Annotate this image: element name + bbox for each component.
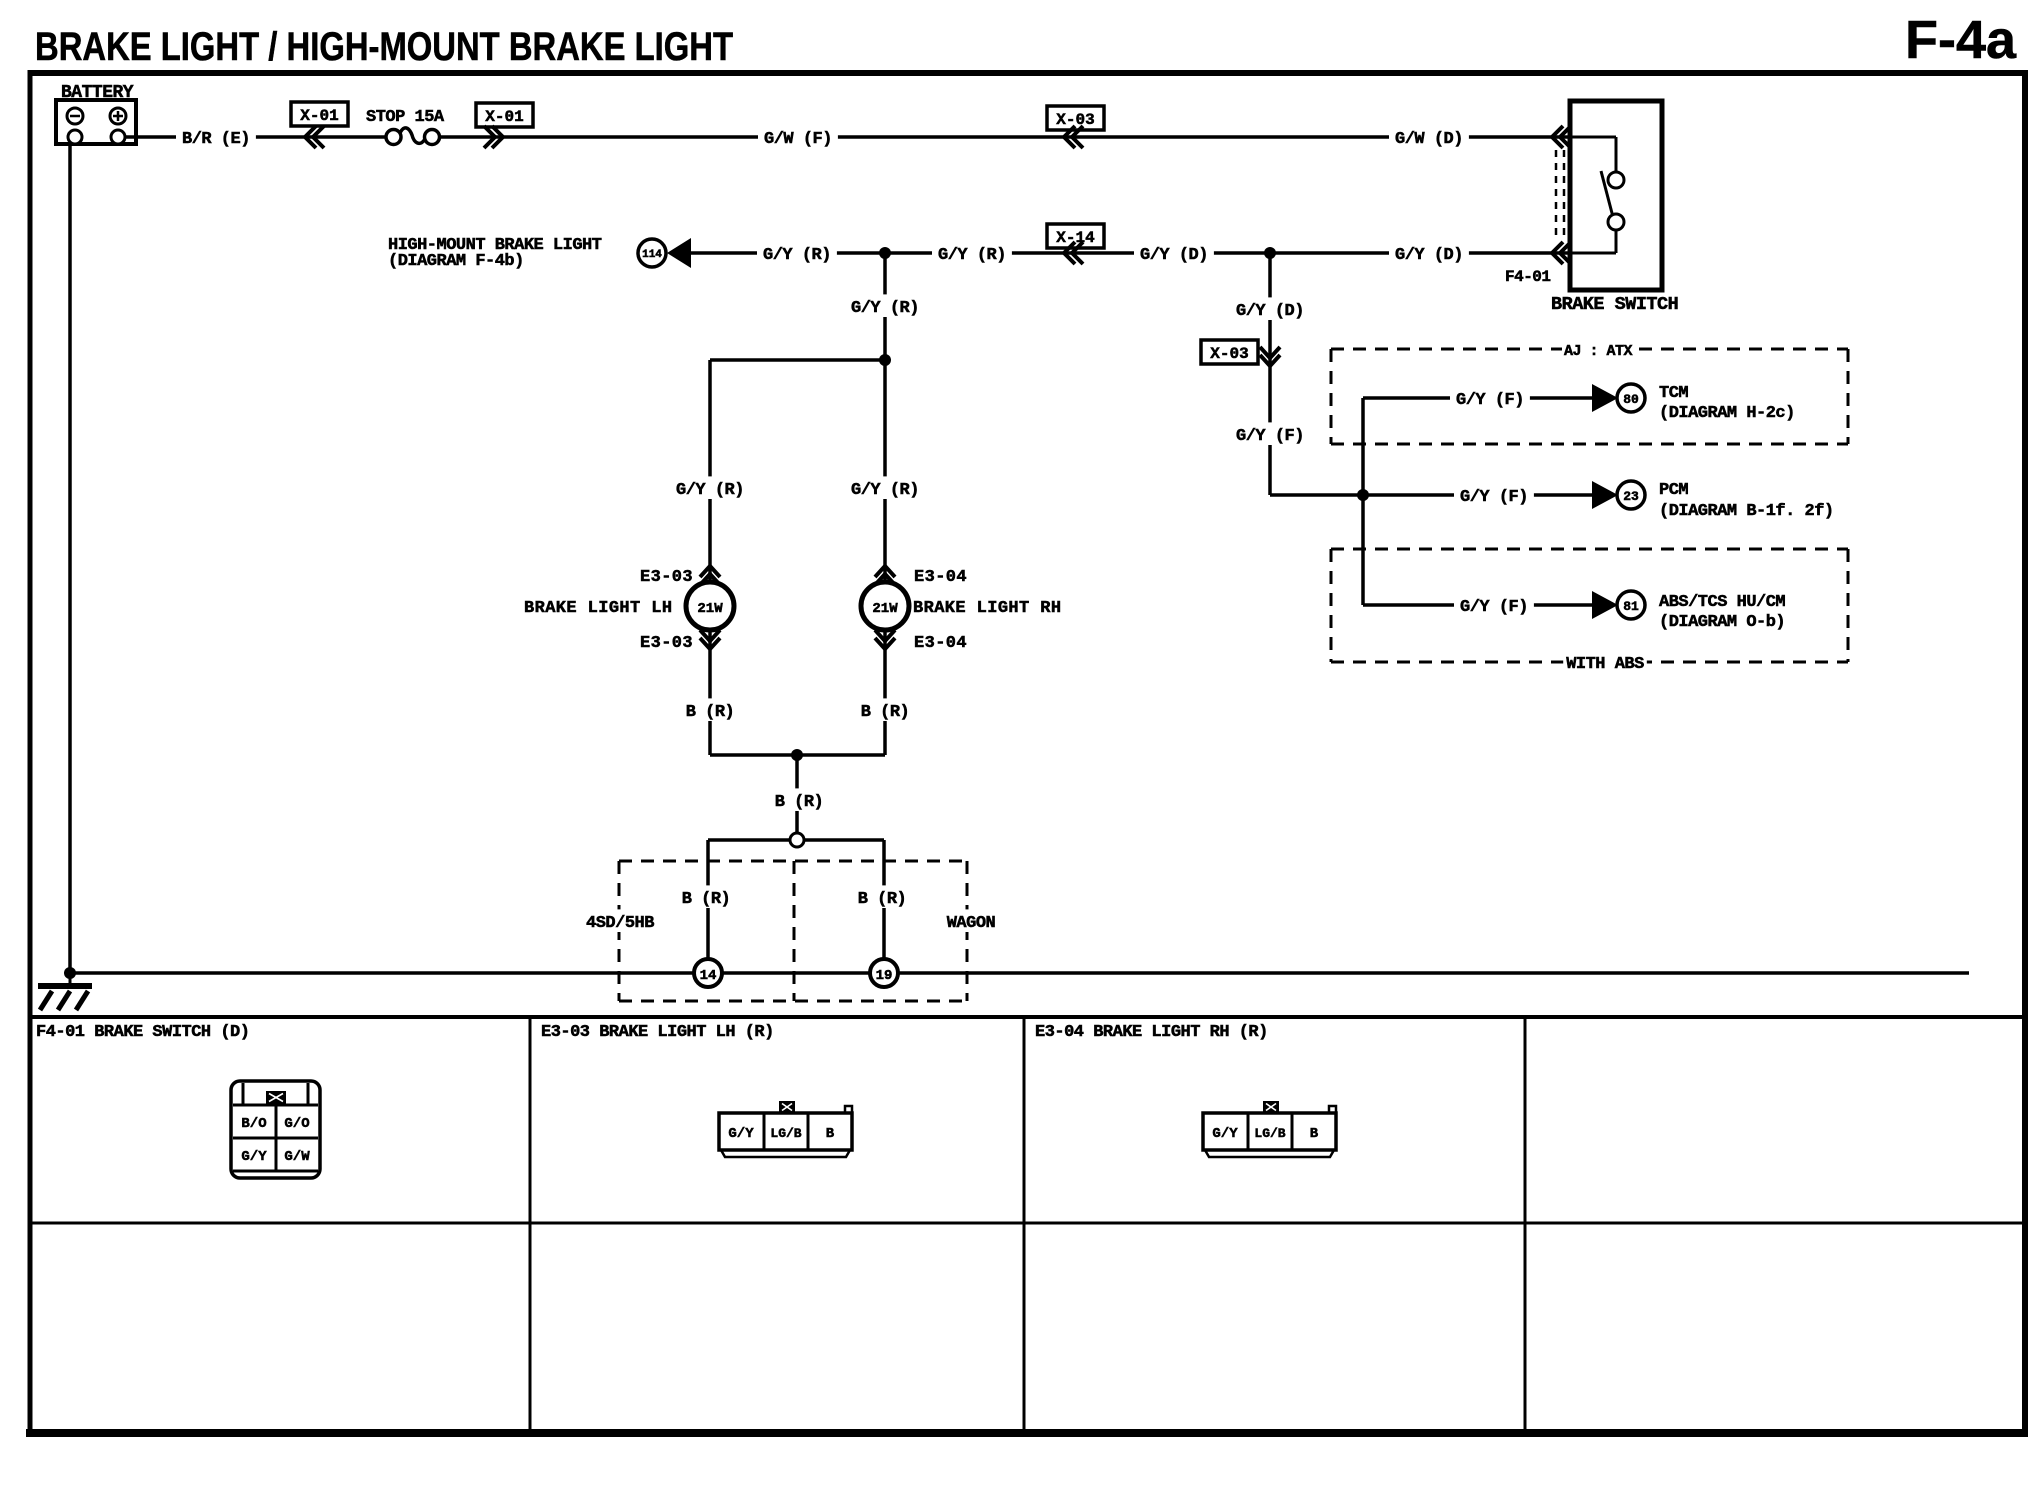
- svg-text:WAGON: WAGON: [947, 914, 996, 933]
- svg-text:G/O: G/O: [284, 1116, 309, 1132]
- svg-text:G/Y (F): G/Y (F): [1236, 427, 1304, 446]
- svg-text:E3-03 BRAKE LIGHT LH (R): E3-03 BRAKE LIGHT LH (R): [541, 1023, 774, 1042]
- svg-text:ABS/TCS HU/CM: ABS/TCS HU/CM: [1659, 593, 1785, 612]
- svg-text:14: 14: [700, 968, 717, 984]
- svg-text:STOP 15A: STOP 15A: [366, 108, 445, 127]
- svg-text:PCM: PCM: [1659, 481, 1688, 500]
- svg-text:(DIAGRAM F-4b): (DIAGRAM F-4b): [388, 252, 524, 271]
- svg-text:B (R): B (R): [858, 890, 907, 909]
- svg-text:E3-03: E3-03: [640, 634, 693, 653]
- svg-text:LG/B: LG/B: [770, 1126, 801, 1141]
- svg-text:X-01: X-01: [485, 108, 523, 126]
- svg-text:G/Y (R): G/Y (R): [851, 299, 919, 318]
- svg-text:B (R): B (R): [861, 703, 910, 722]
- svg-text:19: 19: [876, 968, 893, 984]
- svg-text:BRAKE LIGHT / HIGH-MOUNT BRAKE: BRAKE LIGHT / HIGH-MOUNT BRAKE LIGHT: [35, 25, 733, 69]
- svg-text:F4-01: F4-01: [1505, 268, 1551, 286]
- svg-text:(DIAGRAM H-2c): (DIAGRAM H-2c): [1659, 404, 1795, 423]
- svg-text:G/Y: G/Y: [728, 1126, 754, 1142]
- svg-text:21W: 21W: [697, 601, 723, 617]
- svg-text:X-01: X-01: [300, 107, 338, 125]
- svg-text:BRAKE SWITCH: BRAKE SWITCH: [1551, 294, 1678, 315]
- svg-text:(DIAGRAM B-1f. 2f): (DIAGRAM B-1f. 2f): [1659, 502, 1834, 521]
- svg-text:80: 80: [1623, 392, 1639, 407]
- svg-text:F-4a: F-4a: [1905, 10, 2017, 70]
- svg-text:E3-03: E3-03: [640, 568, 693, 587]
- svg-text:WITH ABS: WITH ABS: [1566, 655, 1644, 674]
- svg-text:G/Y (F): G/Y (F): [1460, 488, 1528, 507]
- svg-text:E3-04: E3-04: [914, 634, 967, 653]
- svg-text:B (R): B (R): [686, 703, 735, 722]
- svg-text:G/Y (R): G/Y (R): [763, 246, 831, 265]
- svg-text:X-14: X-14: [1056, 229, 1095, 247]
- svg-text:LG/B: LG/B: [1254, 1126, 1285, 1141]
- svg-text:X-03: X-03: [1056, 111, 1094, 129]
- svg-text:E3-04: E3-04: [914, 568, 967, 587]
- svg-text:G/W: G/W: [284, 1149, 310, 1165]
- svg-text:4SD/5HB: 4SD/5HB: [586, 914, 654, 933]
- svg-text:G/Y: G/Y: [241, 1149, 267, 1165]
- svg-text:F4-01 BRAKE SWITCH (D): F4-01 BRAKE SWITCH (D): [36, 1023, 249, 1042]
- svg-text:B/O: B/O: [241, 1116, 266, 1132]
- svg-text:81: 81: [1623, 599, 1639, 614]
- svg-text:G/Y (D): G/Y (D): [1140, 246, 1208, 265]
- svg-text:G/Y (D): G/Y (D): [1395, 246, 1463, 265]
- svg-text:23: 23: [1623, 489, 1639, 504]
- svg-text:21W: 21W: [872, 601, 898, 617]
- svg-text:B: B: [826, 1126, 835, 1142]
- svg-text:BRAKE LIGHT RH: BRAKE LIGHT RH: [913, 599, 1061, 618]
- svg-text:B/R (E): B/R (E): [182, 130, 250, 149]
- svg-text:TCM: TCM: [1659, 384, 1688, 403]
- svg-text:G/Y: G/Y: [1212, 1126, 1238, 1142]
- svg-text:E3-04 BRAKE LIGHT RH (R): E3-04 BRAKE LIGHT RH (R): [1035, 1023, 1268, 1042]
- svg-text:G/Y (R): G/Y (R): [938, 246, 1006, 265]
- svg-text:G/W (F): G/W (F): [764, 130, 832, 149]
- svg-text:BRAKE LIGHT LH: BRAKE LIGHT LH: [524, 599, 672, 618]
- svg-text:(DIAGRAM O-b): (DIAGRAM O-b): [1659, 613, 1785, 632]
- svg-text:AJ : ATX: AJ : ATX: [1564, 343, 1633, 360]
- svg-text:G/W (D): G/W (D): [1395, 130, 1463, 149]
- svg-text:G/Y (F): G/Y (F): [1460, 598, 1528, 617]
- svg-text:X-03: X-03: [1210, 345, 1248, 363]
- svg-text:BATTERY: BATTERY: [61, 83, 134, 103]
- svg-text:G/Y (R): G/Y (R): [676, 481, 744, 500]
- svg-text:B: B: [1310, 1126, 1319, 1142]
- svg-text:B (R): B (R): [775, 793, 824, 812]
- svg-text:B (R): B (R): [682, 890, 731, 909]
- svg-text:G/Y (F): G/Y (F): [1456, 391, 1524, 410]
- svg-text:G/Y (R): G/Y (R): [851, 481, 919, 500]
- svg-text:G/Y (D): G/Y (D): [1236, 302, 1304, 321]
- svg-text:114: 114: [642, 249, 662, 261]
